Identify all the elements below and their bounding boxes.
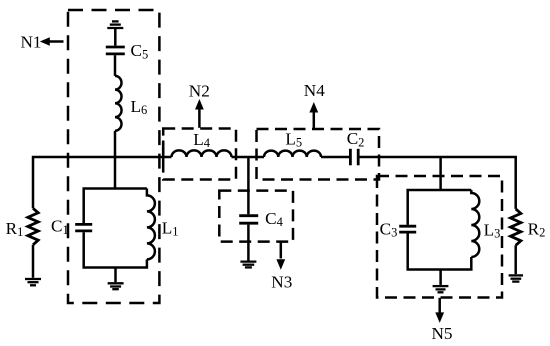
ground below C1-L1 loop [108,283,124,289]
svg-text:L4: L4 [193,130,211,150]
arrow node N1 [40,37,64,46]
ground below R1 [25,279,41,285]
ground below R2 [509,275,523,281]
wire main left + resistor R1 lead [33,157,172,208]
dashed box N1 (C5-L6-C1-L1 branch) [68,10,159,303]
wire C5 to L6 [114,55,117,76]
wire R2 to ground [514,245,517,274]
svg-text:C2: C2 [347,129,365,149]
svg-text:C1: C1 [51,217,69,237]
wire junction to C4 [247,157,250,214]
svg-text:R2: R2 [528,220,546,240]
wire C4 to ground [247,225,250,261]
L4 box left-edge dash crossing wire [162,141,165,162]
svg-text:N5: N5 [432,324,453,343]
svg-text:L6: L6 [131,97,148,117]
wire R1 to ground [32,245,35,278]
capacitor C2 [350,149,358,166]
svg-text:L3: L3 [484,220,501,240]
svg-text:L1: L1 [162,219,179,239]
svg-text:N4: N4 [304,81,325,100]
svg-text:C4: C4 [265,209,283,229]
inductor L4 [172,150,232,157]
dashed box N2 (L4) [163,129,236,180]
inductor L3 [471,190,479,257]
ground below C4 [240,262,256,268]
svg-text:N1: N1 [21,33,42,52]
wire ground to C5 [114,29,117,46]
capacitor C3 [399,226,416,232]
resistor R1 [28,208,38,245]
inductor L5 [264,151,321,157]
dashed box N4 (L5-C2) [257,129,380,180]
wire L6 down through main wire to resonator loop [114,131,117,189]
resonator loop C3-L3 [408,190,472,225]
svg-text:C3: C3 [380,219,398,239]
wire C3 to loop bottom [408,233,472,269]
dashed box N3 (C4) [219,191,293,242]
resonator loop C1-L1 [84,189,147,224]
wire junction to C3-L3 loop [439,157,442,190]
svg-text:N3: N3 [271,272,292,291]
arrow node N3 [276,242,285,270]
capacitor C5 [106,47,125,54]
svg-text:N2: N2 [189,82,210,101]
arrow node N2 [195,99,204,128]
inductor L6 [115,76,122,131]
svg-text:R1: R1 [6,219,24,239]
arrow node N4 [309,102,318,129]
wire C1 to loop bottom [84,232,147,267]
dashed box N5 (C3-L3) [377,176,502,298]
resistor R2 [511,209,521,245]
arrow node N5 [435,298,444,323]
svg-text:L5: L5 [285,129,302,149]
wire C2 to R2 corner [360,157,516,209]
ground top (inverted, above C5) [107,21,123,28]
inductor L1 [147,189,155,260]
capacitor C4 [239,216,258,224]
ground below C3-L3 loop [433,286,449,292]
wire loop to ground [114,268,117,283]
wire loop to ground [439,270,442,285]
svg-text:C5: C5 [131,41,149,61]
wire L5 to C2 [321,156,349,159]
capacitor C1 [75,224,92,231]
wire L4 to L5 [232,156,265,159]
